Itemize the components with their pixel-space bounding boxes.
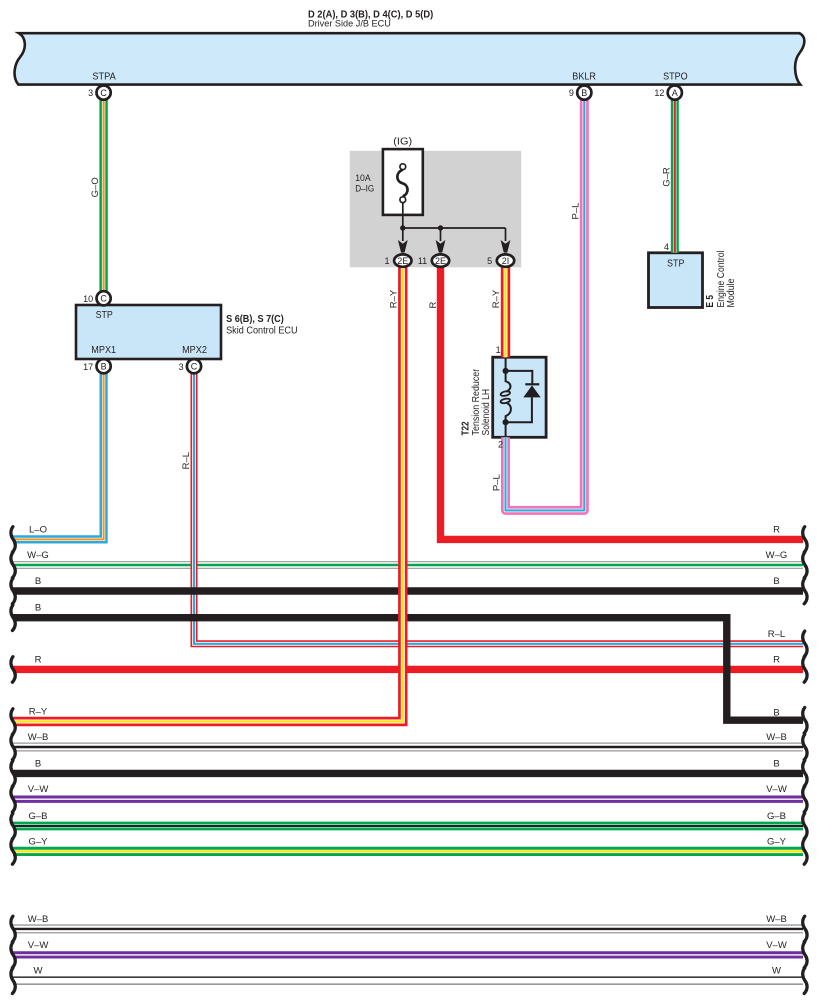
arrow into 5-2I <box>501 240 511 253</box>
svg-text:W–B: W–B <box>766 732 787 743</box>
engine control module box E5 <box>649 253 703 308</box>
svg-text:(IG): (IG) <box>393 137 412 148</box>
torn end left y669.4 <box>11 657 15 683</box>
svg-text:V–W: V–W <box>766 940 787 951</box>
svg-text:B: B <box>773 708 779 719</box>
svg-text:W–B: W–B <box>766 914 787 925</box>
svg-text:2E: 2E <box>397 256 408 266</box>
torn end left y591 <box>11 578 15 604</box>
torn end left y721.5 <box>11 709 15 735</box>
arrow into 11-2E <box>436 240 446 253</box>
arrow into 1-2E <box>398 240 408 253</box>
wire fuse output <box>402 203 404 228</box>
svg-text:B: B <box>35 576 41 587</box>
svg-text:D–IG: D–IG <box>355 183 374 194</box>
svg-text:C: C <box>100 294 107 304</box>
solenoid coil L1 <box>506 371 511 422</box>
torn end left y851.4 <box>11 839 15 865</box>
svg-text:L–O: L–O <box>29 524 47 535</box>
svg-text:G–R: G–R <box>661 167 672 187</box>
skid control ECU box S6/S7 <box>76 305 221 359</box>
svg-text:Module: Module <box>726 278 737 307</box>
diode branch wire <box>506 371 533 422</box>
wire W-B bus lower <box>13 924 803 933</box>
torn end left y565 <box>11 552 15 578</box>
svg-text:A: A <box>672 88 678 98</box>
solenoid internal wire top <box>505 357 507 371</box>
svg-text:W–G: W–G <box>766 550 788 561</box>
wire V-W bus lower <box>13 951 803 958</box>
svg-text:G–Y: G–Y <box>28 836 48 847</box>
wire W bus <box>13 977 803 984</box>
wire G-B bus <box>13 822 803 831</box>
wire R bus lower <box>13 666 803 673</box>
wire B bus row10 <box>13 770 803 777</box>
svg-text:B: B <box>581 88 587 98</box>
diode D1 triangle <box>523 385 540 397</box>
pin 3 (C) on MPX2 <box>187 359 201 373</box>
svg-text:W–G: W–G <box>27 550 49 561</box>
junction dot B <box>438 225 443 230</box>
svg-text:R–Y: R–Y <box>29 707 48 718</box>
torn end right y799.2 <box>803 787 807 813</box>
tension reducer solenoid box T22 <box>493 357 546 437</box>
torn end right y928.9 <box>803 916 807 942</box>
connector 1 2E <box>394 254 411 266</box>
svg-text:5: 5 <box>487 256 492 266</box>
torn end left y539.4 <box>11 527 15 553</box>
torn end right y851.4 <box>803 839 807 865</box>
svg-text:W: W <box>772 966 781 977</box>
fuse F1 box <box>383 149 423 215</box>
svg-text:C: C <box>191 361 198 371</box>
torn end left y773.4 <box>11 761 15 787</box>
svg-text:T22: T22 <box>460 421 471 435</box>
pin 10 (C) on STP <box>97 291 111 305</box>
junction dot A <box>400 225 405 230</box>
svg-text:2I: 2I <box>502 256 510 266</box>
diode D1 cathode bar <box>525 383 539 385</box>
svg-text:R: R <box>773 654 780 665</box>
torn end right y980.7 <box>803 968 807 994</box>
svg-text:E 5: E 5 <box>705 295 716 308</box>
svg-text:2E: 2E <box>435 256 446 266</box>
svg-text:V–W: V–W <box>766 784 787 795</box>
svg-text:Skid Control ECU: Skid Control ECU <box>226 325 298 336</box>
torn end right y565 <box>803 552 807 578</box>
svg-text:11: 11 <box>418 256 427 266</box>
torn end right y669.4 <box>803 657 807 683</box>
pin 3 (C) on STPA <box>97 86 111 100</box>
wire R-Y from 5-2I to T22 <box>501 267 510 358</box>
junction dot solenoid bottom <box>503 419 509 425</box>
pin 17 (B) on MPX1 <box>97 359 111 373</box>
torn end left y747 <box>11 734 15 760</box>
torn end left y928.9 <box>11 916 15 942</box>
fuse element symbol <box>397 164 407 203</box>
wire R-Y from 1-2E to left edge <box>13 267 403 722</box>
torn end right y539.4 <box>803 527 807 553</box>
wire B bus row3 <box>13 587 803 594</box>
svg-text:MPX2: MPX2 <box>182 345 207 356</box>
svg-text:MPX1: MPX1 <box>91 345 116 356</box>
wire R thick from 11-2E to right edge <box>441 267 804 540</box>
svg-text:B: B <box>35 758 41 769</box>
svg-text:3: 3 <box>179 362 184 372</box>
wire R-L from MPX2 to right edge <box>194 373 803 644</box>
torn end right y954.9 <box>803 942 807 968</box>
connector 5 2I <box>497 254 514 266</box>
wire junction bar <box>403 228 506 241</box>
wire B bus elbow <box>13 618 803 721</box>
fuse holder gray block <box>350 151 522 267</box>
torn end left y980.7 <box>11 968 15 994</box>
svg-text:G–Y: G–Y <box>767 836 787 847</box>
torn end left y799.2 <box>11 787 15 813</box>
connector 11 2E <box>432 254 449 266</box>
svg-text:G–B: G–B <box>28 811 47 822</box>
svg-text:12: 12 <box>654 88 664 98</box>
svg-text:R: R <box>773 524 780 535</box>
junction block banner D2/D3/D4/D5 <box>15 33 805 84</box>
svg-text:W–B: W–B <box>28 914 49 925</box>
svg-text:10: 10 <box>83 294 93 304</box>
wire G-Y bus <box>13 847 803 856</box>
torn end left y954.9 <box>11 942 15 968</box>
torn end right y720.2 <box>803 708 807 734</box>
torn end right y773.4 <box>803 761 807 787</box>
solenoid coil loop a <box>500 391 510 397</box>
pin 12 (A) on STPO <box>668 86 682 100</box>
torn end right y747 <box>803 734 807 760</box>
solenoid internal wire bottom <box>505 422 507 437</box>
svg-text:STP: STP <box>96 310 113 321</box>
svg-text:3: 3 <box>88 88 93 98</box>
svg-text:R–L: R–L <box>768 629 785 640</box>
svg-text:P–L: P–L <box>570 203 581 220</box>
pin 9 (B) on BKLR <box>577 86 591 100</box>
svg-text:B: B <box>35 603 41 614</box>
svg-text:R–L: R–L <box>181 452 192 469</box>
svg-text:R: R <box>35 654 42 665</box>
svg-text:STP: STP <box>667 258 685 269</box>
svg-text:Solenoid LH: Solenoid LH <box>481 389 492 436</box>
torn end right y826 <box>803 813 807 839</box>
svg-text:B: B <box>773 576 779 587</box>
torn end right y591 <box>803 578 807 604</box>
wire P-L from BKLR to T22 <box>506 100 585 511</box>
svg-text:R–Y: R–Y <box>491 289 502 308</box>
svg-text:1: 1 <box>384 256 389 266</box>
svg-text:G–O: G–O <box>90 177 101 197</box>
svg-text:S 6(B), S 7(C): S 6(B), S 7(C) <box>226 314 284 325</box>
junction dot solenoid top <box>503 368 509 374</box>
wire V-W bus upper <box>13 796 803 803</box>
svg-text:R: R <box>428 301 439 308</box>
svg-text:G–B: G–B <box>767 811 786 822</box>
svg-text:17: 17 <box>83 362 93 372</box>
svg-text:STPA: STPA <box>92 72 116 83</box>
wire G-O from STPA to STP <box>99 100 107 292</box>
wire W-G bus <box>13 561 803 569</box>
svg-text:BKLR: BKLR <box>572 72 596 83</box>
svg-text:V–W: V–W <box>28 784 49 795</box>
solenoid coil loop b <box>500 398 510 404</box>
wire W-B bus upper <box>13 743 803 752</box>
svg-text:C: C <box>100 88 107 98</box>
svg-text:W–B: W–B <box>28 732 49 743</box>
wire L-O from MPX1 to left edge <box>13 373 104 539</box>
svg-text:B: B <box>773 758 779 769</box>
svg-text:V–W: V–W <box>28 940 49 951</box>
svg-text:Driver Side J/B ECU: Driver Side J/B ECU <box>308 19 391 30</box>
svg-text:9: 9 <box>569 88 574 98</box>
svg-text:B: B <box>101 361 107 371</box>
torn end left y617.7 <box>11 605 15 631</box>
svg-text:P–L: P–L <box>491 474 502 491</box>
svg-text:4: 4 <box>664 242 669 252</box>
svg-text:1: 1 <box>496 345 501 355</box>
svg-text:2: 2 <box>498 439 503 449</box>
wire G-R from STPO to E5 <box>671 100 679 253</box>
svg-text:STPO: STPO <box>663 72 688 83</box>
svg-text:W: W <box>34 966 43 977</box>
torn end left y826 <box>11 813 15 839</box>
svg-text:R–Y: R–Y <box>389 289 400 308</box>
torn end right y643.8 <box>803 631 807 657</box>
